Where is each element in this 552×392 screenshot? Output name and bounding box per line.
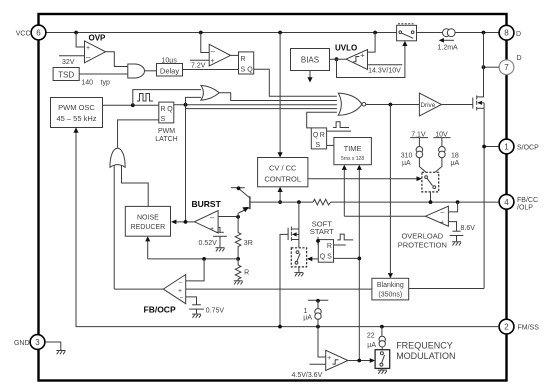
wire UVLO output to BIAS and switch [330,41,408,78]
svg-text:VCC: VCC [16,31,31,38]
svg-text:UVLO: UVLO [335,44,357,53]
wire FM/SS line to pin 2 [76,128,499,327]
svg-text:–: – [211,47,216,56]
node burst output junction [184,220,188,224]
wire TSD output to AND gate [79,73,128,75]
node FB/OCP sense junction [202,257,206,261]
wire NOR output to Drive [366,104,420,106]
svg-text:PWM OSC: PWM OSC [58,103,95,112]
svg-text:7.1V: 7.1V [411,131,426,138]
node PWM latch Q junction [184,103,188,107]
svg-text:5ms x 128: 5ms x 128 [341,156,364,162]
svg-text:8: 8 [504,29,509,38]
node 32V reference bar [59,55,85,57]
transistor Q1 power MOSFET [473,95,484,110]
svg-text:LATCH: LATCH [155,136,177,143]
switch frequency modulation [375,350,390,369]
svg-text:BURST: BURST [192,199,222,209]
svg-text:10V: 10V [435,131,448,138]
pin 8 D [499,25,521,40]
wire comparator output to R of latch U1 [231,54,239,56]
svg-text:+: + [86,45,90,52]
block CV/CC CONTROL [258,158,308,187]
node softstart gate junction [278,325,282,329]
wire Q up to OR gate bottom input [186,97,202,104]
wire soft-start gate to FM/SS line [280,234,288,326]
svg-text:µA: µA [303,315,312,322]
node 14.3V/10V reference bar [368,64,402,66]
op-amp OVERLOAD PROTECTION comparator (left pointing) [426,206,449,227]
gate OR soft (noise/fbocp combine, pointing up) [110,148,125,167]
svg-text:TSD: TSD [58,71,74,80]
waveform clock pulses [137,94,153,102]
svg-text:Q: Q [167,106,173,113]
current source 22uA [367,327,386,350]
svg-text:Q: Q [313,132,319,139]
node FM output junction [357,359,361,363]
node VCC-OVP junction [74,31,78,35]
wire OVP plus-input from VCC rail [76,33,84,48]
svg-text:OVP: OVP [89,34,107,43]
svg-text:–: – [86,53,91,62]
wire Drive to MOSFET gate [442,104,473,106]
wire TIME left arrow from overload line [342,165,347,217]
svg-text:/OLP: /OLP [517,205,533,212]
block Delay [157,64,183,77]
wire GND pin stub [45,342,61,350]
svg-text:MODULATION: MODULATION [396,351,455,361]
latch PWM LATCH R/S [159,102,174,123]
resistor feedback (horizontal) [313,199,331,205]
reference 0.75V at FB/OCP lower input [186,297,204,318]
svg-text:µA: µA [402,160,411,167]
svg-text:PROTECTION: PROTECTION [398,240,447,249]
svg-text:FB/OCP: FB/OCP [144,304,176,314]
current source 18uA [439,138,460,167]
wire latch U1 Q to NOR input 1 [254,69,337,96]
svg-text:1: 1 [504,143,509,152]
svg-text:FM/SS: FM/SS [518,325,540,332]
svg-text:Blanking: Blanking [377,282,404,289]
svg-text:+: + [210,226,214,233]
svg-text:R: R [327,243,332,250]
node overload minus junction [456,200,460,204]
reference 7.1V bar [410,131,428,138]
svg-text:14.3V/10V: 14.3V/10V [368,67,401,74]
label OVERLOAD PROTECTION [398,232,447,250]
wire overload output net [344,216,425,360]
wire NOR output down to Blanking [388,105,393,279]
wire CV/CC feed from VCC rail [278,33,283,158]
svg-text:typ: typ [101,80,110,87]
transistor Q2 (burst PNP) [238,189,250,217]
wire Q down to burst node [185,105,187,222]
svg-text:REDUCER: REDUCER [131,224,166,231]
op-amp 7.2V comparator [209,44,230,66]
svg-text:D: D [517,55,522,62]
node internal supply bar (burst) [231,186,245,190]
svg-text:2: 2 [504,323,509,332]
block TSD [53,68,79,81]
node base-CVCC junction [278,200,282,204]
wire U3 S to FM net [334,257,360,259]
svg-text:PWM: PWM [158,128,175,135]
svg-text:–: – [441,210,445,217]
wire U2 S from TIME [327,144,334,146]
svg-text:S: S [241,67,246,74]
wire OR output to NOR input 2 [219,93,337,101]
svg-text:+: + [327,355,331,362]
node OSC-OR junction [131,103,135,107]
svg-text:+: + [440,220,444,227]
wire OSC junction up to OR gate input [133,90,201,106]
op-amp FB/OCP comparator (left pointing) [163,275,185,304]
svg-text:140: 140 [81,80,93,87]
svg-text:4: 4 [504,198,509,207]
pin 1 S/OCP [499,139,539,154]
svg-text:S: S [327,254,332,261]
node U3 set stub [316,237,320,245]
wire main FB node line to pin 4 [250,201,499,203]
wire Blanking to source net [409,288,484,290]
wire AND output to Delay [145,70,157,72]
node softstart-drain junction [297,200,301,204]
node pin1 source junction [482,145,486,149]
svg-text:TIME: TIME [344,144,362,153]
transistor Q3 soft-start MOSFET [288,227,299,242]
node UVLO output junction [335,57,339,61]
svg-text:6: 6 [36,29,41,38]
wire MOSFET source down to pin1 and blanking [483,108,485,288]
label PWM LATCH [155,128,177,143]
svg-text:+: + [211,58,215,65]
node pin7 drain junction [482,65,486,69]
ground GND-pin [56,351,65,355]
svg-text:8.6V: 8.6V [461,225,476,232]
wire OCP switch to FB node [430,192,432,202]
svg-text:Q: Q [247,67,253,74]
svg-text:S/OCP: S/OCP [517,145,539,152]
resistor 3R [235,217,252,259]
block PWM OSC [51,98,103,128]
wire U2 R reset stub with pulse [327,122,352,131]
svg-text:FREQUENCY: FREQUENCY [396,341,453,351]
wire gate left input from FB/OCP output [113,166,115,290]
wire burst minus input to divider top [218,216,238,218]
node divider mid junction [236,257,240,261]
svg-text:R: R [244,270,249,277]
svg-text:CONTROL: CONTROL [264,175,301,184]
wire overload minus to FB node [448,202,457,212]
buffer Drive [419,93,441,116]
node 22uA junction [380,325,384,329]
ground FM switch [378,368,387,373]
svg-text:R: R [320,132,325,139]
svg-text:45 – 55 kHz: 45 – 55 kHz [56,114,96,123]
block TIME [334,138,372,165]
switch soft-start (dashed) [291,248,306,267]
wire FM comparator plus input [318,327,326,357]
pin 3 GND [14,335,45,350]
wire TIME right arrow from FM line [357,165,362,217]
wire UVLO plus input from VCC rail [368,33,376,53]
label SOFT START [310,220,334,236]
op-amp 4.5V/3.6V comparator [326,350,348,370]
reference 10V bar [433,131,450,138]
svg-text:3R: 3R [244,240,253,247]
current source 310uA [401,138,423,167]
block NOISE REDUCER [125,206,170,236]
op-amp UVLO comparator (left pointing) [346,50,368,70]
node VCC-CVCC junction [278,31,282,35]
wire U2 Q up to NOR input 5 [307,112,337,128]
svg-text:7: 7 [504,63,509,72]
svg-text:CV / CC: CV / CC [269,164,297,173]
current source 1.2mA (double circle) [443,29,456,37]
ground soft-start switch [295,267,304,276]
svg-text:GND: GND [14,340,30,347]
svg-text:3: 3 [35,338,40,347]
svg-text:D: D [516,31,521,38]
node 1uA junction [316,325,320,329]
node OCP switch junction [429,200,433,204]
wire FB/OCP plus input to Blanking [186,288,372,290]
svg-text:Delay: Delay [160,66,179,75]
node VCC-7.2V junction [199,31,203,35]
block BIAS [291,49,330,71]
svg-text:7.2V: 7.2V [191,62,206,69]
wire Q branch to NOR input 4 [186,105,337,109]
pin 7 D [499,55,521,75]
wire divider to FB/OCP branch [148,258,238,260]
latch U3 soft-start R / QS [318,240,333,263]
wire PWM OSC output to PWM latch R [103,104,159,106]
svg-text:Drive: Drive [421,102,436,109]
svg-text:µA: µA [451,160,460,167]
wire drain vertical [483,33,485,97]
ground divider R [234,281,243,285]
svg-text:R: R [161,106,166,113]
gate AND (OVP/TSD combine) [128,64,145,78]
resistor R [235,259,249,281]
wire soft-start source to switch [298,240,300,248]
svg-text:–: – [179,279,183,286]
wire 7.2V comparator minus input from VCC [201,33,209,53]
svg-text:1.2mA: 1.2mA [438,45,459,52]
pin 6 VCC [16,25,46,40]
wire noise reducer bottom input from divider [145,236,150,259]
wire soft-start drain to FB node [298,202,300,229]
wire gate output up to PWM latch S [118,120,159,148]
svg-text:18: 18 [451,153,459,160]
current source 1uA with supply bar [303,299,328,327]
node VCC-UVLO junction [373,31,377,35]
svg-text:S: S [161,116,166,123]
wire pin7 to drain rail [484,66,500,68]
svg-text:310: 310 [401,153,413,160]
svg-text:START: START [310,227,334,236]
svg-text:–: – [210,213,215,222]
op-amp OVP comparator [85,41,106,63]
node 7.2V reference bar [190,59,209,61]
wire BIAS down arrow [307,71,312,83]
block Blanking [372,278,409,300]
IC outer border frame [39,14,507,381]
gate OR (osc/latch) [201,85,219,100]
latch U1 R/S [239,52,254,74]
wire PWM latch Q to NOR input 3 [174,104,337,106]
svg-text:µA: µA [367,342,376,349]
wire pin1 stub [484,146,499,148]
svg-text:Q: Q [320,254,326,261]
svg-text:+: + [178,288,182,295]
svg-text:R: R [241,56,246,63]
pin 2 FM/SS [499,319,539,334]
label 1.2mA with arrow [438,38,459,52]
switch OCP threshold (dashed) [422,172,439,192]
wire U3 Q to soft-start switch (arrow) [307,257,318,262]
latch U2 Q/R/S (timer latch) [311,128,326,149]
wire OVP output to AND gate [106,52,128,67]
node NOR-output blanking junction [389,103,393,107]
wire comparator output to FM switch (arrow) [348,358,375,363]
wire CV/CC output to OCP switch (arrow) [308,176,422,181]
wire Delay output to S of latch U1 [183,69,239,71]
node divider top junction [236,215,240,219]
svg-text:22: 22 [367,333,375,340]
wire FB/OCP output up to soft OR gate [114,288,163,290]
op-amp BURST comparator (left pointing) [195,211,219,234]
node QS S junction [357,257,361,261]
label FREQUENCY MODULATION [396,341,455,362]
svg-text:NOISE: NOISE [137,215,159,222]
svg-text:S: S [316,142,321,149]
wire sources into OCP switch [419,158,442,173]
switch startup (on VCC rail) [397,24,417,41]
wire burst output to noise reducer (arrow) [171,220,195,225]
svg-text:BIAS: BIAS [301,56,319,65]
wire U3 R reset stub with pulse [334,234,354,245]
svg-text:0.75V: 0.75V [206,307,225,314]
reference 0.52V at burst plus input [213,228,227,252]
label 140 typ [81,80,110,87]
wire gate right input from NOISE REDUCER [122,166,149,207]
wire sense down to FB/OCP minus input [186,259,204,281]
gate NOR (drive logic) [338,93,365,115]
wire VCC top rail from pin 6 [46,32,499,34]
svg-text:+: + [360,50,365,59]
pin 4 FB/CC /OLP [499,194,538,211]
svg-text:FB/CC: FB/CC [517,197,538,204]
svg-text:(350ns): (350ns) [378,292,402,299]
wire CV/CC bottom arrow from base node [278,187,283,202]
wire arrow into PWM OSC bottom [73,128,78,133]
reference 4.5V/3.6V bar [292,364,326,379]
svg-text:0.52V: 0.52V [199,240,218,247]
node drain-rail junction [482,31,486,35]
svg-text:32V: 32V [62,59,75,66]
reference 8.6V at overload plus input [448,222,463,246]
svg-text:4.5V/3.6V: 4.5V/3.6V [292,372,323,379]
